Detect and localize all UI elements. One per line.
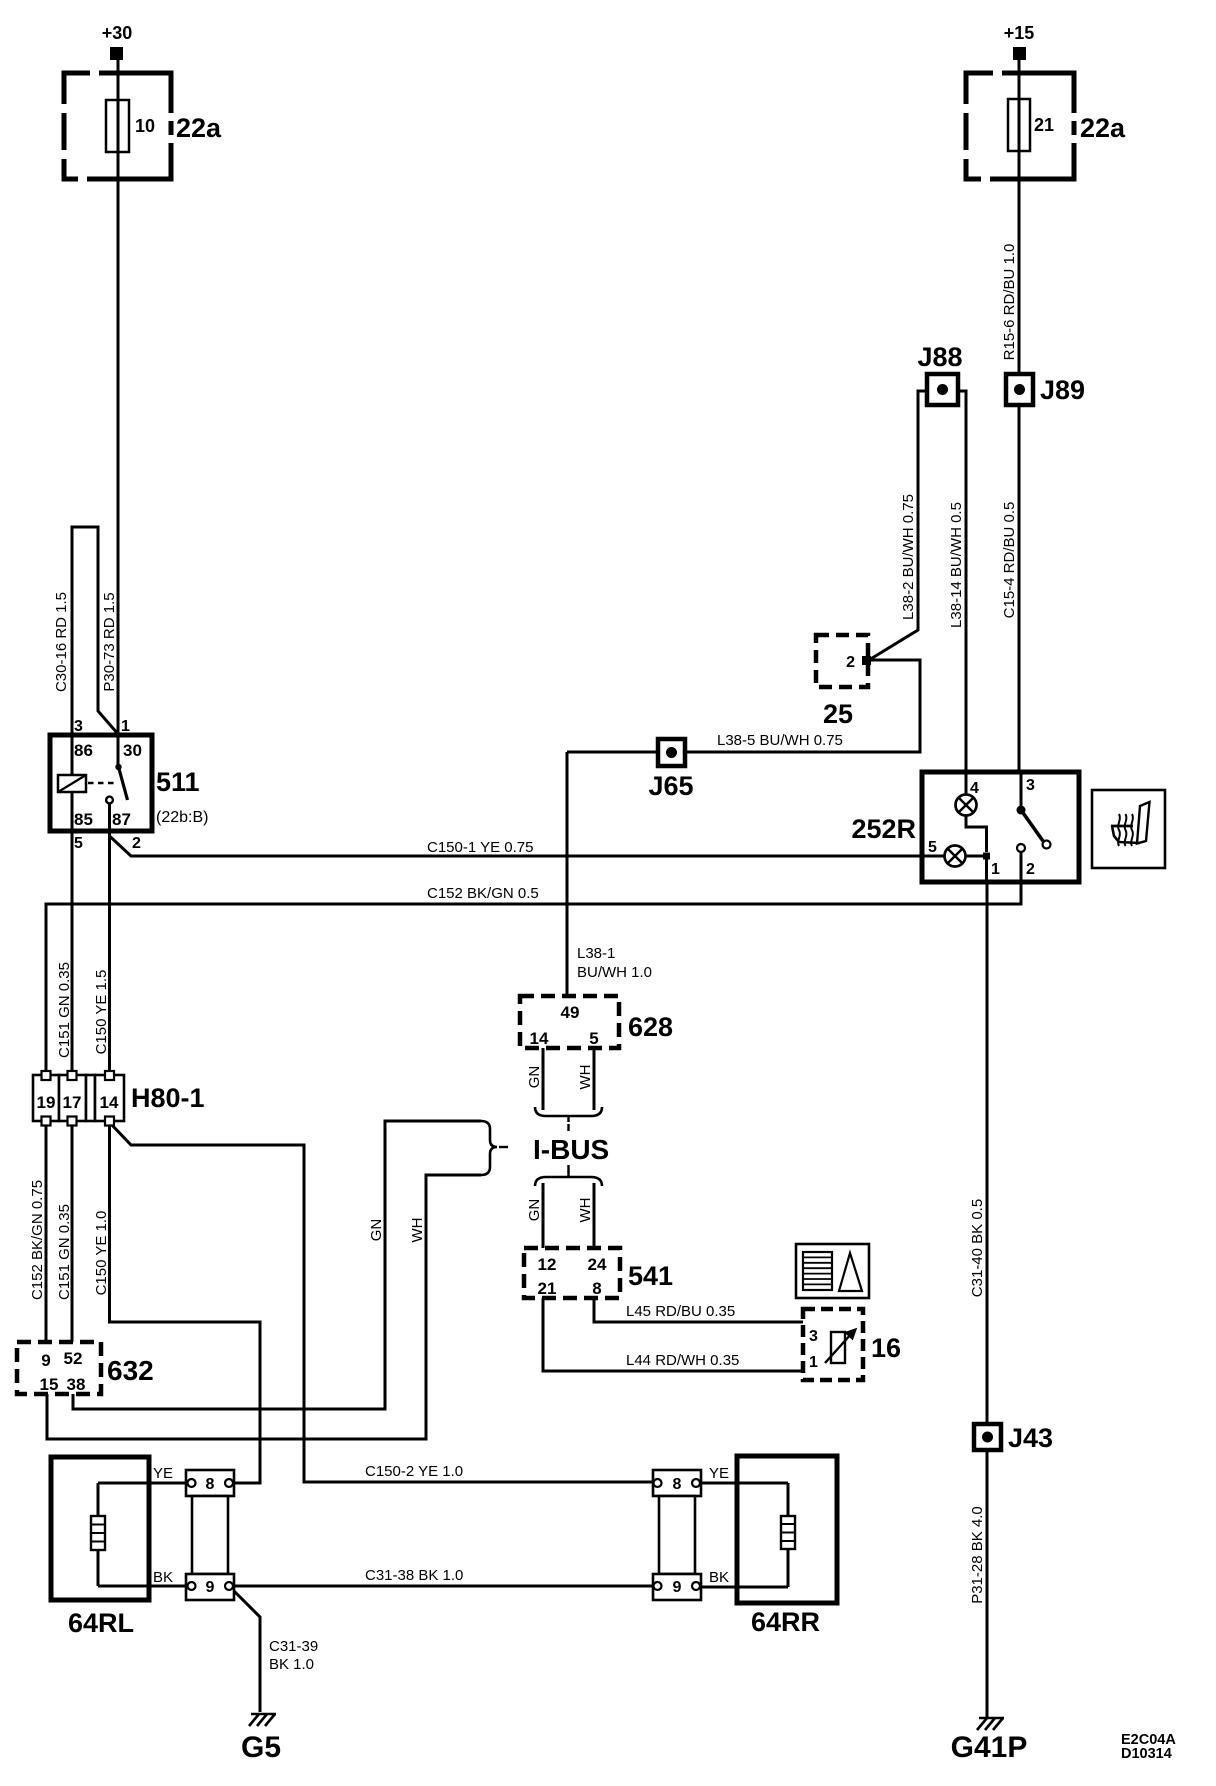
wire WH from I-BUS bracket to 541 pin 24 [577, 1183, 594, 1248]
svg-text:C15-4 RD/BU 0.5: C15-4 RD/BU 0.5 [1001, 502, 1018, 619]
svg-text:12: 12 [538, 1255, 557, 1274]
svg-text:5: 5 [589, 1029, 598, 1048]
svg-text:C150 YE 1.0: C150 YE 1.0 [93, 1211, 110, 1296]
wire C151 GN 0.35 relay pin5 to H80-1 pin17 to 632 pin52 [56, 792, 73, 1342]
svg-text:64RR: 64RR [751, 1607, 820, 1637]
svg-text:+15: +15 [1004, 23, 1035, 43]
svg-text:C150-1 YE 0.75: C150-1 YE 0.75 [427, 839, 533, 856]
svg-text:8: 8 [206, 1476, 215, 1493]
svg-text:J43: J43 [1008, 1423, 1053, 1453]
svg-text:BU/WH 1.0: BU/WH 1.0 [577, 964, 652, 981]
connector right pins 8 and 9 [653, 1470, 701, 1600]
svg-text:24: 24 [588, 1255, 607, 1274]
svg-text:52: 52 [64, 1349, 83, 1368]
svg-text:C31-40 BK 0.5: C31-40 BK 0.5 [969, 1199, 986, 1297]
relay 511 dashed actuator link [88, 782, 115, 784]
svg-text:1: 1 [121, 718, 130, 735]
relay 511 pin labels [74, 718, 142, 852]
fuse box 22a left [59, 68, 222, 184]
svg-text:C151 GN 0.35: C151 GN 0.35 [56, 962, 73, 1058]
svg-text:GN: GN [526, 1199, 543, 1222]
svg-text:BK: BK [709, 1569, 729, 1586]
icon heater element with thermal sensor [796, 1244, 869, 1298]
svg-text:C152 BK/GN 0.5: C152 BK/GN 0.5 [427, 885, 539, 902]
svg-text:I-BUS: I-BUS [533, 1134, 609, 1165]
wire GN from 632 pin 38 to I-BUS brace [73, 1121, 481, 1409]
svg-text:D10314: D10314 [1121, 1746, 1172, 1762]
svg-text:87: 87 [112, 810, 131, 829]
svg-text:C151 GN 0.35: C151 GN 0.35 [56, 1204, 73, 1300]
wire C150 YE 1.5 relay pin 87 to H80-1 pin 14 [93, 803, 110, 1121]
svg-text:21: 21 [1034, 115, 1054, 135]
svg-text:541: 541 [628, 1261, 673, 1291]
wire C15-4 RD/BU 0.5 J89 to 252R pin 3 [1001, 389, 1019, 772]
wire C31-40 BK 0.5 252R pin 1 to splice J43 [969, 882, 987, 1437]
wire L44 RD/WH 0.35 from 541 pin 21 to sensor 16 pin 1 [543, 1298, 838, 1371]
svg-text:3: 3 [1026, 777, 1035, 794]
svg-text:J65: J65 [648, 771, 693, 801]
svg-text:2: 2 [1026, 861, 1035, 878]
wire C150 YE 1.0 H80-1 pin 14 to 64RL connector pin 8 [93, 1121, 260, 1483]
svg-text:C150-2 YE 1.0: C150-2 YE 1.0 [365, 1463, 463, 1480]
relay 511 box [50, 735, 208, 831]
fuse 21 [1008, 99, 1054, 151]
seat heating pad 64RR [696, 1456, 837, 1637]
ground G5 [241, 1714, 281, 1764]
svg-text:9: 9 [41, 1351, 50, 1370]
wire C150-1 YE 0.75 relay pin 2 to 252R pin 5 [110, 836, 945, 856]
connector H80-1 [33, 1071, 205, 1126]
svg-text:GN: GN [368, 1219, 385, 1242]
wire L38-1 BU/WH 1.0 from J65 wire down to 628 pin 49 [567, 752, 652, 996]
supply terminal +15 [1004, 23, 1035, 60]
ground G41P [951, 1718, 1028, 1764]
svg-text:22a: 22a [1080, 113, 1126, 143]
wire GN from 628 pin 14 to I-BUS bracket [526, 1048, 543, 1110]
svg-text:L38-1: L38-1 [577, 945, 615, 962]
svg-text:C31-38 BK 1.0: C31-38 BK 1.0 [365, 1567, 463, 1584]
svg-text:P31-28 BK 4.0: P31-28 BK 4.0 [969, 1506, 986, 1604]
svg-text:22a: 22a [176, 113, 222, 143]
svg-text:25: 25 [823, 699, 853, 729]
svg-text:9: 9 [206, 1579, 215, 1596]
wire GN from I-BUS bracket to 541 pin 12 [526, 1183, 543, 1248]
svg-text:C150 YE 1.5: C150 YE 1.5 [93, 970, 110, 1055]
I-BUS bracket under 628 [535, 1107, 602, 1122]
switch 252R box [851, 772, 1079, 882]
svg-text:64RL: 64RL [68, 1608, 134, 1638]
svg-text:C152 BK/GN 0.75: C152 BK/GN 0.75 [29, 1180, 46, 1300]
svg-text:L45 RD/BU 0.35: L45 RD/BU 0.35 [626, 1303, 735, 1320]
svg-text:4: 4 [970, 780, 979, 797]
svg-text:38: 38 [67, 1375, 86, 1394]
svg-text:C31-39: C31-39 [269, 1638, 318, 1655]
wire L38-2 BU/WH 0.75 J88 to connector 25 pin 2 [869, 391, 927, 660]
svg-text:BK 1.0: BK 1.0 [269, 1656, 314, 1673]
wire C152 BK/GN from 252R pin 2 to H80-1 pin 19 to 632 pin 9 [29, 882, 1021, 1342]
svg-text:10: 10 [135, 116, 155, 136]
I-BUS brace from H80-1 wires [481, 1121, 508, 1175]
svg-text:YE: YE [153, 1465, 173, 1482]
connector 632 [17, 1342, 154, 1394]
splice J89 [1006, 374, 1085, 405]
svg-text:2: 2 [132, 835, 141, 852]
switch 252R contact pins 3-2 [1017, 772, 1051, 882]
seat heating pad 64RL [51, 1457, 191, 1638]
connector left pins 8 and 9 [186, 1470, 234, 1600]
svg-text:628: 628 [628, 1012, 673, 1042]
fuse 10 [106, 100, 155, 152]
svg-text:5: 5 [74, 835, 83, 852]
connector 25 pin 2 [816, 635, 871, 729]
svg-text:30: 30 [123, 741, 142, 760]
relay 511 switch contact 30-87 [106, 735, 127, 831]
splice J43 [974, 1423, 1053, 1453]
wire WH from 628 pin 5 to I-BUS bracket [577, 1048, 594, 1110]
svg-text:49: 49 [561, 1003, 580, 1022]
drawing number E2C04A D10314 [1121, 1732, 1176, 1762]
svg-text:16: 16 [871, 1333, 901, 1363]
wire C31-39 BK 1.0 connector pin 9 to ground G5 [231, 1588, 318, 1712]
label I-BUS [533, 1134, 609, 1165]
svg-text:L44 RD/WH 0.35: L44 RD/WH 0.35 [626, 1352, 739, 1369]
connector 628 [520, 996, 673, 1048]
svg-text:YE: YE [709, 1465, 729, 1482]
svg-text:2: 2 [846, 654, 855, 671]
svg-text:H80-1: H80-1 [131, 1083, 205, 1113]
svg-text:WH: WH [577, 1198, 594, 1223]
svg-text:8: 8 [592, 1279, 601, 1298]
splice J88 [917, 342, 962, 405]
svg-text:G41P: G41P [951, 1731, 1028, 1764]
svg-text:3: 3 [74, 718, 83, 735]
wire R15-6 RD/BU 1.0 fuse 21 to splice J89 [1001, 60, 1019, 389]
svg-text:511: 511 [156, 767, 200, 797]
wire L38-5 BU/WH 0.75 connector 25 pin 2 through splice J65 [567, 660, 920, 752]
I-BUS dashed bus line [567, 1124, 569, 1172]
supply terminal +30 [102, 23, 133, 60]
svg-text:J88: J88 [917, 342, 962, 372]
svg-text:+30: +30 [102, 23, 133, 43]
wire L38-14 BU/WH 0.5 J88 to 252R pin 4 [948, 391, 966, 772]
svg-text:BK: BK [153, 1569, 173, 1586]
icon heated seat [1092, 790, 1165, 868]
svg-text:8: 8 [673, 1476, 682, 1493]
svg-text:14: 14 [530, 1029, 549, 1048]
svg-text:85: 85 [74, 810, 93, 829]
svg-text:P30-73 RD 1.5: P30-73 RD 1.5 [101, 592, 118, 691]
switch 252R lamp pin 5 [922, 839, 1000, 882]
wire C30-16 RD 1.5 loop to relay 511 pin 3 [53, 527, 118, 735]
svg-text:1: 1 [991, 861, 1000, 878]
I-BUS bracket above 541 [535, 1171, 602, 1186]
fuse box 22a right [961, 68, 1126, 184]
sensor 16 thermistor [803, 1309, 901, 1380]
svg-text:252R: 252R [851, 814, 916, 844]
wire L45 RD/BU 0.35 from 541 pin 8 to sensor 16 pin 3 [594, 1298, 838, 1333]
svg-text:WH: WH [577, 1065, 594, 1090]
svg-text:L38-5 BU/WH 0.75: L38-5 BU/WH 0.75 [717, 732, 843, 749]
relay 511 coil [58, 735, 86, 831]
wire WH from 632 pin 15 to I-BUS brace [47, 1175, 481, 1439]
wire C150-2 YE 1.0 H80-1 pin 14 to 64RR connector pin 8 [110, 1123, 657, 1482]
svg-text:L38-2 BU/WH 0.75: L38-2 BU/WH 0.75 [900, 494, 917, 620]
svg-text:19: 19 [37, 1093, 56, 1112]
splice J65 [648, 739, 693, 801]
svg-text:C30-16 RD 1.5: C30-16 RD 1.5 [53, 592, 70, 692]
svg-text:J89: J89 [1040, 375, 1085, 405]
svg-text:WH: WH [409, 1218, 426, 1243]
svg-text:R15-6 RD/BU 1.0: R15-6 RD/BU 1.0 [1001, 244, 1018, 361]
svg-text:(22b:B): (22b:B) [156, 809, 208, 826]
wire P30-73 RD 1.5 from fuse 10 to relay 511 pin 1 [101, 60, 118, 735]
svg-text:21: 21 [538, 1279, 557, 1298]
connector 541 [524, 1248, 673, 1298]
svg-text:14: 14 [100, 1093, 119, 1112]
svg-text:86: 86 [74, 741, 93, 760]
svg-text:17: 17 [63, 1093, 82, 1112]
svg-text:1: 1 [809, 1354, 818, 1371]
wire C31-38 BK 1.0 connector pin 9 left to 64RR connector pin 9 [229, 1567, 657, 1586]
svg-text:5: 5 [928, 839, 937, 856]
svg-text:GN: GN [526, 1066, 543, 1089]
svg-text:L38-14 BU/WH 0.5: L38-14 BU/WH 0.5 [948, 502, 965, 628]
switch 252R lamp pin 4 [956, 772, 987, 852]
svg-text:632: 632 [107, 1355, 154, 1386]
svg-text:9: 9 [673, 1579, 682, 1596]
svg-text:G5: G5 [241, 1731, 281, 1764]
wire P31-28 BK 4.0 J43 to ground G41P [969, 1437, 987, 1717]
svg-text:15: 15 [40, 1375, 59, 1394]
svg-text:3: 3 [809, 1328, 818, 1345]
